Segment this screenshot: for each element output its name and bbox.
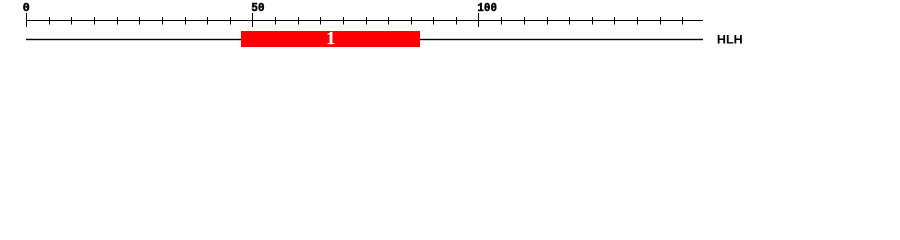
minor tick residue 45 bbox=[230, 17, 231, 25]
minor tick residue 35 bbox=[185, 17, 186, 25]
minor tick residue 10 bbox=[71, 17, 72, 25]
domain box 1 (HLH, residues 48-87) bbox=[241, 31, 420, 47]
minor tick residue 90 bbox=[433, 17, 434, 25]
minor tick residue 75 bbox=[366, 17, 367, 25]
major tick 100 bbox=[478, 13, 479, 27]
svg-text:HLH: HLH bbox=[717, 33, 743, 47]
minor tick residue 25 bbox=[139, 17, 140, 25]
minor tick residue 115 bbox=[547, 17, 548, 25]
minor tick residue 15 bbox=[94, 17, 95, 25]
protein backbone line bbox=[26, 39, 703, 40]
minor tick residue 95 bbox=[456, 17, 457, 25]
minor tick residue 110 bbox=[524, 17, 525, 25]
minor tick residue 120 bbox=[569, 17, 570, 25]
svg-text:100: 100 bbox=[477, 1, 497, 15]
minor tick residue 145 bbox=[682, 17, 683, 25]
minor tick residue 85 bbox=[411, 17, 412, 25]
minor tick residue 125 bbox=[592, 17, 593, 25]
minor tick residue 70 bbox=[343, 17, 344, 25]
minor tick residue 55 bbox=[275, 17, 276, 25]
svg-text:0: 0 bbox=[23, 1, 30, 15]
minor tick residue 5 bbox=[49, 17, 50, 25]
minor tick residue 130 bbox=[614, 17, 615, 25]
minor tick residue 20 bbox=[117, 17, 118, 25]
minor tick residue 60 bbox=[298, 17, 299, 25]
minor tick residue 135 bbox=[637, 17, 638, 25]
major tick 0 bbox=[26, 13, 27, 27]
svg-text:1: 1 bbox=[326, 28, 335, 48]
minor tick residue 40 bbox=[207, 17, 208, 25]
major tick 50 bbox=[252, 13, 253, 27]
minor tick residue 65 bbox=[320, 17, 321, 25]
minor tick residue 30 bbox=[162, 17, 163, 25]
minor tick residue 80 bbox=[388, 17, 389, 25]
ruler axis line bbox=[26, 20, 703, 21]
minor tick residue 140 bbox=[660, 17, 661, 25]
svg-text:50: 50 bbox=[251, 1, 264, 15]
minor tick residue 105 bbox=[501, 17, 502, 25]
